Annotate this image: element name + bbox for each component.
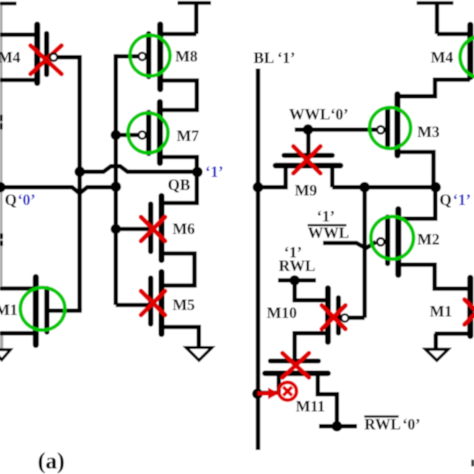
svg-text:M1: M1 <box>430 304 452 321</box>
svg-text:M5: M5 <box>173 297 196 314</box>
svg-text:RWL: RWL <box>279 258 316 275</box>
svg-text:RWL: RWL <box>364 416 401 433</box>
svg-text:‘1’: ‘1’ <box>205 164 223 181</box>
svg-text:M11: M11 <box>296 398 325 415</box>
svg-text:M6: M6 <box>173 221 196 238</box>
svg-text:M2: M2 <box>417 232 440 249</box>
svg-text:Q: Q <box>5 192 17 209</box>
svg-text:M8: M8 <box>175 48 198 65</box>
svg-text:M1: M1 <box>0 302 18 319</box>
svg-text:WWL‘0’: WWL‘0’ <box>289 106 348 123</box>
svg-text:M4: M4 <box>431 49 454 66</box>
svg-text:M3: M3 <box>417 124 440 141</box>
svg-text:BL ‘1’: BL ‘1’ <box>254 50 296 67</box>
svg-text:‘0’: ‘0’ <box>18 192 36 209</box>
svg-text:M7: M7 <box>177 128 200 145</box>
svg-text:QB: QB <box>168 177 190 194</box>
svg-text:‘0’: ‘0’ <box>402 416 420 433</box>
svg-text:M9: M9 <box>295 182 318 199</box>
svg-text:M4: M4 <box>0 50 21 67</box>
svg-text:WWL: WWL <box>308 225 349 242</box>
svg-text:‘1’: ‘1’ <box>453 192 471 209</box>
svg-text:Q: Q <box>440 192 452 209</box>
svg-text:‘1’: ‘1’ <box>317 209 335 226</box>
svg-text:M10: M10 <box>267 305 297 322</box>
svg-text:(a): (a) <box>38 449 65 474</box>
